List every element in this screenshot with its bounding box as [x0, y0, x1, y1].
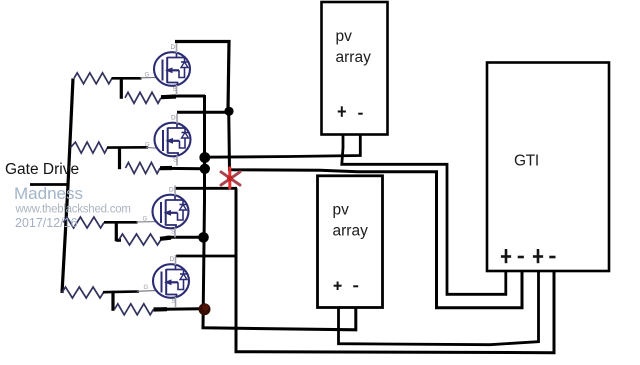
wire: pv array 1 plus to GTI terminal 1	[342, 124, 506, 294]
junction dot: Q3 source node	[198, 232, 209, 243]
resistor R1 (Q1 gate)	[74, 73, 112, 84]
wire: source bus to pv array 1 minus	[205, 124, 360, 157]
watermark: www.theblackshed.com	[15, 204, 131, 216]
svg-text:array: array	[336, 49, 372, 66]
wire: Q2 drain lead	[177, 111, 227, 114]
resistor R6 (Q3 gate-source)	[119, 234, 161, 245]
resistor R5 (Q3 gate)	[64, 217, 105, 228]
resistor R4 (Q2 gate-source)	[126, 163, 161, 174]
transistor Q2 (N-MOSFET)	[155, 114, 191, 166]
box: pv array 2	[318, 176, 383, 308]
wire: Q1 source lead	[161, 96, 205, 97]
resistor R8 (Q4 gate-source)	[115, 304, 154, 315]
transistor Q4 (N-MOSFET)	[153, 255, 189, 307]
wire: Q3 source lead	[160, 237, 202, 239]
svg-text:pv: pv	[333, 202, 350, 219]
box: pv array 1	[322, 2, 388, 135]
wire: R3 to T-junction row 2	[107, 147, 148, 170]
wire: gate lead Q3	[136, 216, 162, 222]
svg-text:www.theblackshed.com: www.theblackshed.com	[15, 204, 131, 216]
svg-text:G: G	[145, 73, 150, 79]
wire: Q3 drain lead	[175, 187, 237, 190]
error mark: red asterisk	[221, 168, 240, 188]
wire: Q4 source lead	[154, 307, 202, 312]
box: GTI (grid tie inverter)	[487, 63, 609, 272]
resistor R3 (Q2 gate)	[71, 142, 108, 153]
svg-text:2017/12/16: 2017/12/16	[15, 216, 78, 230]
wire: gate lead Q1	[140, 73, 163, 79]
wire: R7 to T-junction row 4	[103, 291, 139, 311]
resistor R7 (Q4 gate)	[62, 287, 104, 298]
wire: gate lead Q4	[137, 285, 161, 291]
svg-text:pv: pv	[336, 28, 353, 45]
resistor R2 (Q1 gate-source)	[125, 92, 161, 103]
wire: drain bus A to GTI terminal 2	[229, 110, 522, 308]
watermark: 2017/12/16	[15, 216, 78, 230]
svg-text:G: G	[143, 216, 148, 222]
junction dot: Q4 source node (dark red)	[199, 303, 211, 315]
svg-text:GTI: GTI	[514, 153, 539, 170]
svg-text:Gate Drive: Gate Drive	[5, 161, 79, 178]
watermark: Madness	[14, 184, 83, 203]
junction dot: Q1/Q2 drain node	[224, 107, 233, 116]
svg-text:Madness: Madness	[14, 184, 83, 203]
wire: Q2 source lead	[160, 166, 203, 171]
junction dot: source bus / pv1 minus node	[199, 152, 210, 163]
transistor Q1 (N-MOSFET)	[154, 43, 190, 95]
svg-text:G: G	[145, 143, 150, 149]
wire: Q4 drain lead	[176, 255, 237, 258]
wire: drain bus B to GTI terminal 4	[236, 188, 554, 352]
wire: gate drive input lead	[30, 183, 69, 186]
wire: pv array 2 plus to GTI terminal 3	[339, 262, 539, 345]
wire: source bus down to pv array 2 minus	[203, 95, 356, 330]
label: Gate Drive	[5, 161, 79, 178]
wire: Q1 drain to drain bus A	[175, 42, 229, 111]
svg-text:array: array	[333, 223, 369, 240]
transistor Q3 (N-MOSFET)	[153, 186, 189, 238]
svg-text:G: G	[144, 285, 149, 291]
wire: R1 to T-junction row 1	[112, 77, 142, 99]
wire: gate drive vertical bus	[62, 79, 73, 294]
wire: R5 to T-junction row 3	[104, 221, 138, 241]
wire: gate lead Q2	[145, 143, 164, 149]
junction dot: Q2 source node	[200, 164, 210, 174]
